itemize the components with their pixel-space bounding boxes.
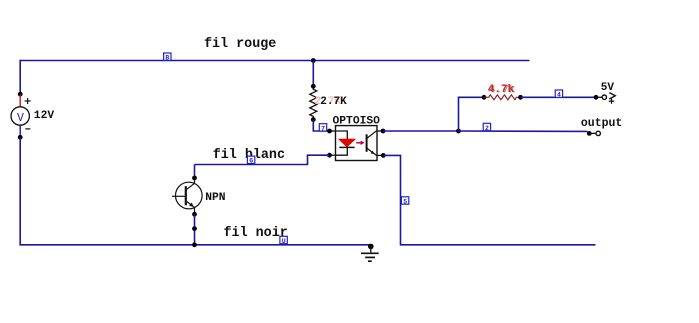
U1 emitter arrowhead — [371, 151, 375, 155]
svg-text:B: B — [165, 55, 169, 62]
node pin 3 — [381, 153, 386, 158]
svg-text:NPN: NPN — [205, 192, 226, 204]
op-to-coupler U1 body — [336, 126, 378, 161]
svg-text:5V: 5V — [601, 82, 615, 94]
node pin 2 — [327, 153, 332, 158]
svg-text:4: 4 — [557, 92, 561, 99]
wire source bottom lead — [19, 125, 21, 137]
wire top horizontal (fil rouge net) — [20, 60, 530, 62]
net marker 5 on vertical wire — [401, 197, 408, 206]
wire emitter to bottom — [194, 214, 196, 245]
U1 LED triangle — [339, 139, 356, 147]
U1 phototransistor bar — [366, 134, 368, 152]
ground — [361, 246, 379, 261]
node top junction resistor branch — [311, 58, 316, 63]
U1 phototransistor collector — [367, 131, 377, 139]
net marker 7 at optoiso pin1 — [319, 124, 326, 133]
svg-text:output: output — [581, 117, 622, 130]
node ground — [368, 244, 374, 250]
U1 internal cathode wiring — [336, 147, 348, 155]
wire fil blanc net — [195, 155, 330, 164]
wire bottom (fil noir net) — [20, 244, 371, 246]
wire resistor to optoiso pin1 — [313, 120, 329, 131]
wire left vertical lower — [19, 137, 21, 245]
node emitter — [192, 212, 197, 217]
net marker 2 on output wire — [483, 123, 490, 132]
pin 1 stub — [330, 130, 336, 132]
node resistor R2 right — [518, 95, 523, 100]
node battery minus — [18, 135, 23, 140]
wire junction to output terminal — [459, 130, 588, 132]
wire left vertical upper — [19, 60, 21, 94]
terminal output — [587, 131, 601, 136]
node collector — [192, 176, 197, 181]
pin 4 stub — [377, 130, 383, 132]
node resistor R2 left — [482, 95, 487, 100]
svg-text:2: 2 — [485, 125, 489, 132]
pin 2 stub — [330, 154, 336, 156]
svg-text:fil noir: fil noir — [224, 226, 288, 241]
node mid wire — [192, 226, 197, 231]
net marker U under fil noir — [280, 236, 287, 245]
pin 3 stub — [377, 154, 383, 156]
node resistor R1 bottom — [311, 117, 316, 122]
wire down to transistor collector — [194, 165, 196, 179]
wire junction up to 4.7k row — [459, 97, 485, 131]
svg-text:2.7K: 2.7K — [320, 96, 347, 108]
node battery plus — [18, 92, 23, 97]
wire pin3 down and right (emitter net) — [383, 155, 595, 244]
node pin 1 — [327, 129, 332, 134]
svg-text:V: V — [17, 112, 24, 125]
node pin 4 — [381, 129, 386, 134]
U1 light arrow — [356, 141, 364, 145]
wire red lead of source — [19, 95, 21, 108]
wire junction to resistor R1 — [312, 61, 314, 87]
U1 LED cathode bar — [339, 146, 354, 148]
net marker B on top wire — [164, 53, 171, 62]
resistor R2 4.7k horizontal zigzag — [484, 95, 521, 100]
net marker 6 under fil blanc — [247, 156, 254, 165]
node resistor R1 top — [311, 84, 316, 89]
U1 phototransistor emitter — [367, 148, 377, 155]
voltage source V1 12V — [11, 98, 31, 129]
svg-text:6: 6 — [249, 158, 253, 165]
terminal 5V — [594, 93, 616, 104]
node output junction — [456, 129, 461, 134]
svg-text:12V: 12V — [34, 110, 55, 122]
transistor Q1 NPN — [172, 178, 202, 214]
U1 internal anode wiring — [336, 131, 348, 139]
svg-text:4.7k: 4.7k — [488, 84, 515, 96]
svg-text:7: 7 — [321, 125, 325, 132]
resistor R1 2.7K vertical zigzag — [310, 86, 317, 119]
wire R2 to 5V terminal — [521, 96, 597, 98]
node bottom junction — [192, 242, 197, 247]
svg-text:5: 5 — [403, 198, 407, 205]
svg-text:fil rouge: fil rouge — [204, 37, 276, 52]
wire pin4 to output junction — [383, 130, 459, 132]
svg-text:U: U — [282, 238, 286, 245]
net marker 4 on 5V wire — [555, 90, 562, 99]
